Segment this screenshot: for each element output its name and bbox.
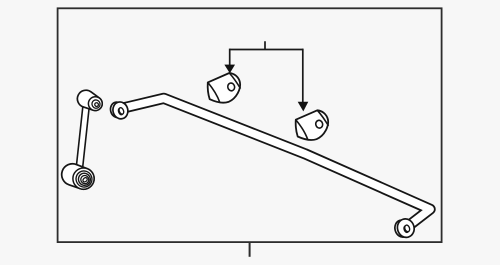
arrow to bushing 1	[225, 49, 235, 73]
arrow to bushing 2	[298, 49, 308, 111]
stabilizer bar right eyelet	[393, 217, 416, 239]
drawing frame border	[58, 8, 442, 242]
bushing 1	[208, 73, 241, 103]
bottom center tick	[249, 242, 251, 257]
end link top bushing	[77, 90, 102, 110]
end link bottom bushing	[62, 164, 95, 190]
callout bracket	[230, 41, 303, 49]
stabilizer bar	[121, 98, 430, 227]
bushing 2	[296, 110, 329, 140]
stabilizer bar left eyelet	[109, 100, 130, 120]
end link rod	[80, 107, 87, 167]
